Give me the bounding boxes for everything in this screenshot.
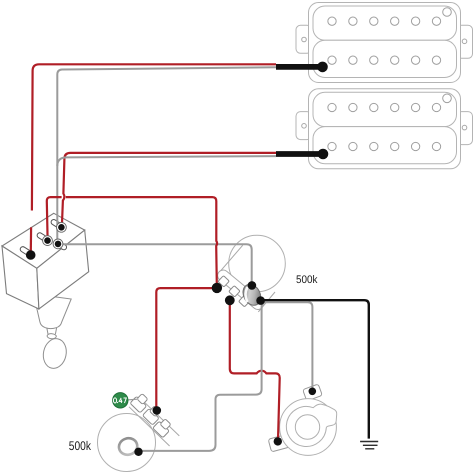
wire black pot casing to ground [264,300,369,438]
tone lug 3 [153,419,171,438]
node tone casing [134,448,142,456]
node volume input A [212,283,222,293]
wire gray neck pickup to switch [57,67,276,241]
switch SW1 lever ball tip [34,294,72,371]
wire red neck pickup to switch [32,64,276,210]
capacitor C1 0.47 lead [126,398,137,401]
wire red volume wiper to jack tip [230,301,280,441]
tone shaft ring [117,436,139,457]
potentiometer TONE 500k body [98,397,180,472]
capacitor C1 value 0.47 [113,398,126,403]
pickup bridge humbucker (bottom) [296,89,473,169]
wire gray bridge pickup to switch [57,156,276,166]
node volume wiper B [225,295,235,305]
wire red switch common to volume input [47,197,62,239]
node tone lug 2 [153,406,162,415]
node jack sleeve lug [309,388,317,396]
switch SW1 body (3-way toggle) [2,213,89,309]
pickup neck humbucker (top) [296,3,473,83]
wire gray jack sleeve ground bus [141,302,312,451]
wire gray switch to volume casing [61,244,252,282]
node jack tip lug [274,437,282,445]
tone lug 1 [130,394,148,413]
switch lug slot bottom [19,246,32,257]
switch lug slot output [54,240,67,251]
node switch middle lug [43,236,53,246]
potentiometer VOL 500k body [215,235,285,312]
wire red bridge pickup to switch [62,153,276,226]
tone lug 2 [142,406,160,425]
node volume casing D black [256,296,265,305]
node volume casing C [248,281,257,290]
svg-text:500k: 500k [296,274,318,286]
wire red volume input to tone lug [156,288,217,407]
switch lug slot top [50,219,63,230]
switch lug slot middle [36,232,49,243]
ground symbol [360,442,378,449]
node switch top lug [57,222,67,232]
node switch bottom lug [26,250,36,260]
capacitor C1 0.47 [113,393,128,408]
jack J1 output [268,384,337,455]
node switch output lug [53,239,63,249]
cable neck pickup [276,62,328,73]
svg-text:500k: 500k [69,439,92,453]
cable bridge pickup [276,149,328,160]
